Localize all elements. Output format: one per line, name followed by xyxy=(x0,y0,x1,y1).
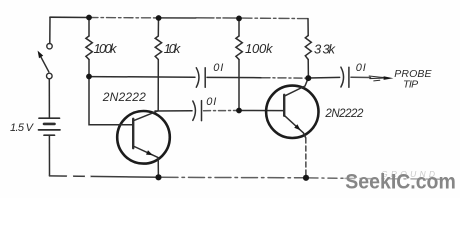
svg-text:0I: 0I xyxy=(356,62,366,74)
svg-text:3: 3 xyxy=(314,42,322,57)
svg-text:SeekIC.com: SeekIC.com xyxy=(345,171,456,194)
svg-text:100k: 100k xyxy=(94,41,119,56)
svg-text:2N2222: 2N2222 xyxy=(324,108,364,120)
svg-text:0I: 0I xyxy=(206,96,216,108)
svg-text:2N2222: 2N2222 xyxy=(102,90,146,104)
svg-text:100k: 100k xyxy=(245,41,274,56)
svg-text:3k: 3k xyxy=(323,42,337,57)
svg-text:TIP: TIP xyxy=(403,79,418,91)
svg-text:10k: 10k xyxy=(164,41,182,56)
svg-text:0I: 0I xyxy=(213,62,223,74)
svg-text:1.5 V: 1.5 V xyxy=(10,122,35,134)
